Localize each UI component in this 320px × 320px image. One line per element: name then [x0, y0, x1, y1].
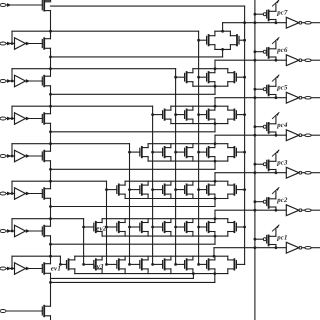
svg-text:pc3: pc3 [276, 159, 288, 166]
svg-text:ev2: ev2 [96, 226, 107, 233]
svg-text:pc6: pc6 [276, 47, 288, 54]
svg-text:ev3: ev3 [94, 264, 105, 271]
svg-text:pc1: pc1 [276, 234, 287, 241]
svg-text:pc4: pc4 [276, 122, 288, 129]
svg-text:ev1: ev1 [51, 265, 61, 272]
svg-text:pc5: pc5 [276, 84, 288, 91]
svg-text:pc2: pc2 [276, 197, 288, 204]
svg-text:pc7: pc7 [276, 9, 288, 16]
